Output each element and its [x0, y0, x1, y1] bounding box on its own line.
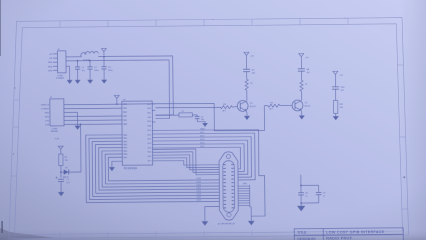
- wire C7 to ground: [60, 182, 62, 192]
- resistor R10: [334, 100, 338, 113]
- wire CTS to U1: [67, 107, 122, 109]
- wire VCC to U1 pin 1 net: [116, 102, 118, 104]
- wire ground return route: [152, 130, 265, 217]
- J1 pin 3 stub: [64, 111, 67, 113]
- wire J2 gnd stub 4: [238, 192, 249, 194]
- wire C5 to R7: [246, 72, 248, 79]
- J1 pin 6 stub: [64, 123, 67, 125]
- crystal X1: [179, 113, 192, 117]
- J1 pin 5 stub: [64, 119, 67, 121]
- ground below C3: [101, 80, 107, 84]
- J3 pin 3 stub: [53, 61, 57, 63]
- border zone ticks bottom: [60, 230, 252, 238]
- wire VCC rail A: [98, 55, 172, 58]
- wire RXD to U1: [67, 115, 122, 117]
- wire J2 gnd stub 2: [238, 187, 249, 189]
- wire J2 gnd stub 9: [239, 204, 250, 206]
- resistor R8: [300, 80, 303, 91]
- J2 inner shroud: [223, 161, 235, 213]
- wire gnd bus vertical: [250, 185, 252, 207]
- J1 pin 1 stub: [64, 104, 67, 106]
- VCC power symbol: [58, 146, 63, 149]
- ground below Q1: [244, 116, 250, 120]
- connector J2 GPIB centronics: [219, 152, 238, 221]
- junction C8 bottom: [300, 202, 302, 204]
- border zone numerals: [14, 87, 15, 88]
- wire C10 to R10: [335, 89, 337, 100]
- wire rail B down to U1 VSS: [155, 60, 170, 119]
- wire VCC to C6: [300, 60, 302, 68]
- wire rail to C2: [89, 61, 91, 67]
- wire C2 to ground: [89, 69, 91, 80]
- J2 pin contacts: [223, 165, 234, 208]
- ground below R10: [333, 116, 339, 120]
- junction DTR branch: [80, 123, 82, 125]
- wire rail A down to U1 VDD: [155, 56, 173, 115]
- wire bus left 8: [108, 156, 219, 180]
- wire J3 gnd pin: [66, 65, 69, 67]
- ground below U1: [109, 167, 115, 171]
- wire U1 VSS to ground: [112, 161, 123, 167]
- wire J2 gnd stub 3: [238, 190, 249, 192]
- wire C8 to C9 top: [301, 185, 319, 192]
- wire bus left 5: [99, 147, 220, 190]
- photo dark edge top-left: [0, 0, 2, 56]
- resistor R1: [59, 154, 63, 166]
- VCC power symbol: [244, 52, 249, 55]
- wire VCC to C10: [334, 78, 336, 86]
- capacitor C10: [332, 86, 339, 88]
- wire C6 to R8: [300, 71, 302, 80]
- VCC power symbol: [114, 95, 119, 98]
- wire J2 gnd stub 1: [238, 185, 249, 187]
- wire bus left 1: [86, 134, 220, 203]
- wire R1 to C7: [60, 166, 62, 178]
- junction Q3 node: [60, 171, 62, 173]
- capacitor C2: [87, 66, 92, 68]
- wire C9 bottom to node: [301, 195, 319, 203]
- ground below J3: [67, 80, 73, 84]
- wire C8 top lead: [300, 185, 302, 192]
- transistor Q1: [237, 100, 248, 111]
- U1 right pin stub: [152, 121, 155, 123]
- wire C4 to ground: [197, 119, 205, 124]
- ground below C7: [58, 192, 64, 196]
- U1 right pin stub: [152, 103, 155, 105]
- inductor L1: [81, 52, 98, 57]
- wire gnd bus down: [250, 207, 252, 221]
- wire rail to C3: [103, 57, 105, 67]
- wire J1 GND down: [67, 112, 78, 125]
- wire U1 TX to R6: [155, 106, 220, 109]
- capacitor: [58, 178, 64, 180]
- wire R10 to ground: [335, 113, 337, 116]
- ground below J2 shield: [202, 221, 209, 225]
- wire Q3 to DTR net: [69, 171, 81, 173]
- op-amp U1 microcontroller PIC16F628A: [122, 101, 153, 165]
- wire DTR down to Q3: [70, 124, 81, 172]
- junction rail A / VCC: [103, 56, 105, 58]
- wire down to C8 node: [300, 175, 302, 186]
- junction rail B at C1: [77, 60, 79, 62]
- wire J2 gnd stub 8: [239, 202, 250, 204]
- wire R6 to Q1 base: [232, 105, 237, 108]
- wire bus right 1: [152, 133, 255, 181]
- J1 pin 2 stub: [64, 108, 67, 110]
- wire ctrl bus 2: [153, 152, 220, 173]
- wire VCC to R1: [60, 153, 62, 154]
- wire bus right 2: [152, 137, 251, 178]
- J3 pin 2 stub: [53, 57, 57, 59]
- connector J3 power input: [57, 51, 66, 73]
- wire ctrl bus 5: [153, 160, 219, 165]
- wire U1 to X1: [155, 114, 178, 116]
- U1 right pin stub: [152, 110, 155, 112]
- wire Q1 emitter to ground: [245, 111, 248, 116]
- capacitor C6: [298, 68, 305, 70]
- capacitor C1: [75, 66, 80, 68]
- border zone ticks left: [11, 100, 20, 176]
- capacitor C9: [316, 191, 322, 193]
- wire J2 gnd stub 5: [238, 195, 249, 197]
- wire rail to C1: [76, 61, 78, 67]
- wire J3 to L1: [66, 56, 81, 58]
- wire R7 to Q1 collector: [246, 90, 248, 101]
- ground below C2: [87, 80, 93, 84]
- ground below C8 C9: [297, 206, 305, 211]
- transistor Q2: [292, 100, 303, 111]
- wire C8 bottom lead: [300, 195, 302, 206]
- border zone ticks top: [60, 18, 348, 27]
- wire bus left 4: [95, 144, 219, 194]
- wire R8 to Q2 collector: [301, 91, 303, 100]
- capacitor C4: [195, 116, 200, 118]
- ground below J1: [75, 126, 81, 130]
- ground near C4: [202, 123, 208, 127]
- wire bus left 3: [92, 140, 219, 196]
- capacitor C5: [243, 68, 250, 70]
- wire to Q3: [61, 171, 64, 173]
- VCC power symbol: [299, 54, 304, 57]
- wire TXD to U1: [67, 119, 122, 121]
- wire bus left 2: [89, 137, 219, 199]
- wire DSR/CLK long net: [67, 103, 214, 104]
- wire bus left 7: [105, 153, 219, 184]
- wire VCC to C5: [245, 59, 247, 69]
- wire bus right 5: [153, 147, 241, 169]
- J1 pin 4 stub: [64, 115, 67, 117]
- ground below Q2: [299, 115, 305, 119]
- wire C1 to ground: [77, 69, 79, 80]
- J3 pin 5 stub: [53, 69, 57, 71]
- ground below gnd bus: [248, 221, 255, 225]
- wire X1 to C4: [192, 115, 197, 116]
- wire ctrl bus 3: [153, 155, 220, 171]
- capacitor C8: [298, 192, 304, 194]
- ground below C1: [75, 80, 81, 84]
- resistor R7: [245, 79, 248, 90]
- J3 pin 4 stub: [53, 65, 57, 67]
- wire J2 shield to ground: [205, 207, 220, 222]
- junction VCC on DSR net: [116, 103, 118, 105]
- wire J3 gnd pin down: [69, 66, 71, 80]
- junction C8 top: [300, 185, 302, 187]
- border zone ticks right: [397, 65, 408, 209]
- wire rail B: [66, 59, 169, 62]
- VCC power symbol: [333, 71, 338, 74]
- wire ctrl bus 4: [153, 157, 219, 167]
- wire bus right 4: [153, 144, 245, 173]
- wire J2 gnd stub 6: [238, 197, 249, 199]
- wire bus left 6: [102, 150, 219, 187]
- wire DTR to U1: [67, 123, 122, 125]
- capacitor C3: [101, 66, 106, 68]
- resistor R6: [220, 106, 232, 109]
- wire bus right 3: [152, 140, 247, 175]
- VCC power symbol: [101, 49, 106, 52]
- connector J1 serial port: [50, 99, 64, 126]
- junction rail B at C2: [89, 60, 91, 62]
- wire R9 to Q2 base: [280, 105, 292, 107]
- J3 pin 1 stub: [53, 53, 57, 55]
- J2 mounting hole bottom: [227, 213, 231, 217]
- wire ctrl bus 1: [153, 149, 220, 175]
- wire C3 to ground: [103, 69, 105, 80]
- resistor R9: [268, 104, 280, 107]
- wire J2 gnd stub 7: [239, 200, 250, 202]
- J2 mounting hole top: [226, 154, 230, 158]
- transistor Q3: [64, 169, 69, 174]
- title block table: [294, 228, 403, 240]
- wire Q2 emitter to ground: [300, 110, 303, 115]
- wire route to R9: [214, 103, 268, 131]
